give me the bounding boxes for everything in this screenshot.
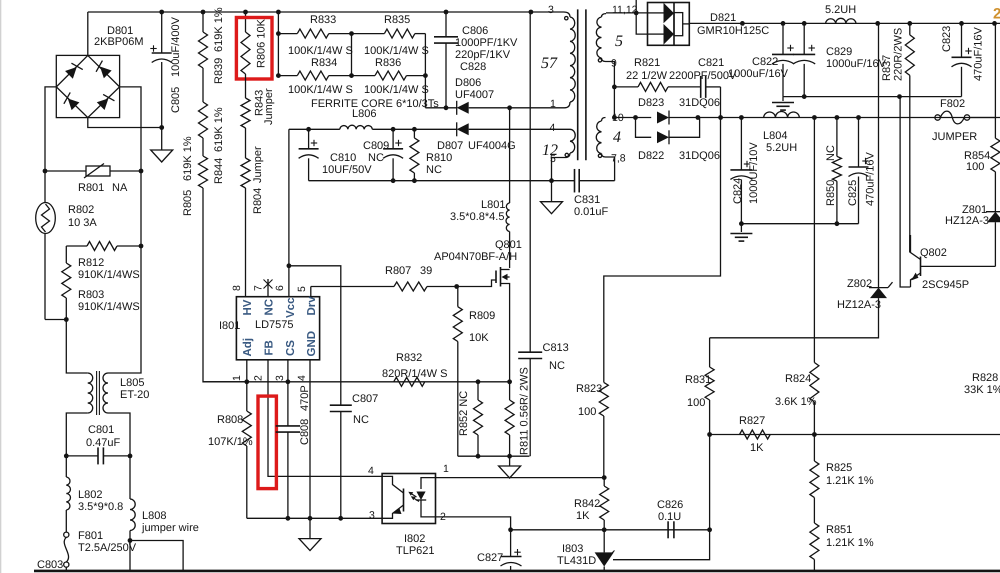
resistor R810 NC xyxy=(413,129,415,138)
svg-text:0.1U: 0.1U xyxy=(658,511,681,523)
svg-text:D822: D822 xyxy=(638,150,664,162)
svg-text:100: 100 xyxy=(966,161,984,173)
svg-text:C806: C806 xyxy=(462,25,488,37)
resistor R834 100K/1/4WS xyxy=(278,75,297,77)
svg-text:NC: NC xyxy=(353,414,369,426)
svg-text:820R/1/4W S: 820R/1/4W S xyxy=(382,368,447,380)
svg-text:C813: C813 xyxy=(543,342,569,354)
svg-text:NC: NC xyxy=(368,152,384,164)
resistor R821 22 1/2W xyxy=(614,86,638,88)
svg-text:C809: C809 xyxy=(363,140,389,152)
inductor L802 3.5*9*0.8 xyxy=(65,456,67,477)
svg-text:TL431D: TL431D xyxy=(557,555,596,567)
svg-text:1: 1 xyxy=(550,98,556,110)
bridge diode top-left xyxy=(64,61,82,79)
svg-text:T2.5A/250V: T2.5A/250V xyxy=(78,542,137,554)
wire bridge right down xyxy=(120,87,141,171)
svg-text:C826: C826 xyxy=(657,499,683,511)
svg-text:D807: D807 xyxy=(437,140,463,152)
svg-text:3: 3 xyxy=(548,4,554,16)
svg-text:TLP621: TLP621 xyxy=(396,545,435,557)
svg-text:R821: R821 xyxy=(634,57,660,69)
svg-text:2: 2 xyxy=(253,375,265,381)
resistor R801 NA (fusible) xyxy=(45,170,86,172)
svg-text:3: 3 xyxy=(274,375,286,381)
zener Z802 HZ12A-3 xyxy=(878,23,880,287)
inductor L806 ferrite core xyxy=(340,125,373,129)
svg-text:100uF/400V: 100uF/400V xyxy=(170,16,182,77)
inductor L808 jumper wire xyxy=(129,456,131,499)
wire Adj/CS line xyxy=(203,381,510,383)
resistor R835 100K/1/4WS xyxy=(352,33,385,35)
svg-text:1000uF/16V: 1000uF/16V xyxy=(826,58,887,70)
svg-text:I803: I803 xyxy=(562,543,583,555)
svg-text:100: 100 xyxy=(578,406,596,418)
svg-text:57: 57 xyxy=(541,55,558,72)
svg-text:0.01uF: 0.01uF xyxy=(574,206,609,218)
wire secondary gnd rail xyxy=(783,96,962,98)
capacitor C824 1000UF/10V xyxy=(740,118,742,170)
svg-text:R827: R827 xyxy=(739,415,765,427)
svg-text:Q801: Q801 xyxy=(495,239,522,251)
svg-text:33K 1%: 33K 1% xyxy=(964,384,1000,396)
svg-text:C801: C801 xyxy=(88,424,114,436)
scan edge line xyxy=(0,0,2,573)
svg-text:R803: R803 xyxy=(78,289,104,301)
ground secondary xyxy=(782,97,784,101)
bridge diode bottom-left xyxy=(61,92,79,110)
wire R809 bottom link xyxy=(457,382,459,456)
svg-text:R831: R831 xyxy=(685,374,711,386)
svg-text:R851: R851 xyxy=(826,524,852,536)
svg-text:JUMPER: JUMPER xyxy=(932,131,977,143)
svg-text:0.47uF: 0.47uF xyxy=(86,437,121,449)
resistor R831 100 xyxy=(709,338,711,367)
svg-text:R836: R836 xyxy=(375,57,401,69)
svg-text:C807: C807 xyxy=(352,393,378,405)
wire bottom ground rail xyxy=(34,570,1000,573)
resistor R844 619K 1% xyxy=(202,68,204,102)
svg-text:C827: C827 xyxy=(477,552,503,564)
wire Vcc top line xyxy=(289,128,340,130)
resistor R854 100 xyxy=(994,23,996,138)
IC pin 7 stub with X (NC) xyxy=(267,279,269,297)
svg-text:2KBP06M: 2KBP06M xyxy=(94,36,144,48)
capacitor C822 1000uF/16V xyxy=(782,23,784,54)
svg-text:R823: R823 xyxy=(576,383,602,395)
svg-text:R824: R824 xyxy=(785,373,811,385)
svg-text:100K/1/4W S: 100K/1/4W S xyxy=(288,45,353,57)
svg-text:NC: NC xyxy=(263,299,275,316)
svg-text:GMR10H125C: GMR10H125C xyxy=(697,25,769,37)
svg-text:4: 4 xyxy=(296,375,308,381)
svg-text:107K/1%: 107K/1% xyxy=(208,436,253,448)
wire R842/C826 row xyxy=(511,529,710,531)
svg-text:1000UF/10V: 1000UF/10V xyxy=(748,142,760,204)
highlight red box around R806 xyxy=(236,18,272,80)
svg-text:L805: L805 xyxy=(120,377,144,389)
wire R805 column top xyxy=(202,12,204,32)
svg-text:3.5*9*0.8: 3.5*9*0.8 xyxy=(78,501,123,513)
fuse F802 jumper xyxy=(935,115,940,120)
node top rail junctions xyxy=(159,10,164,15)
svg-text:R842: R842 xyxy=(574,498,600,510)
svg-text:LD7575: LD7575 xyxy=(255,319,294,331)
svg-text:1000uF/16V: 1000uF/16V xyxy=(728,68,789,80)
svg-text:L802: L802 xyxy=(78,489,102,501)
wire opto pin1 to R842 node xyxy=(436,477,605,479)
wire 11,12 stub to top edge and lower anode xyxy=(636,0,647,34)
transistor Q802 2SC945P xyxy=(920,257,922,277)
svg-text:5.2UH: 5.2UH xyxy=(766,142,797,154)
svg-text:220pF/1KV: 220pF/1KV xyxy=(455,49,511,61)
resistor R827 1K xyxy=(740,430,771,439)
svg-text:5: 5 xyxy=(615,33,623,50)
svg-text:3.6K 1%: 3.6K 1% xyxy=(775,396,817,408)
resistor R837 220R/2WS xyxy=(909,23,911,35)
resistor R836 100K/1/4WS xyxy=(352,75,376,77)
svg-text:ET-20: ET-20 xyxy=(120,389,149,401)
wire R823 top jog to 12V xyxy=(604,87,721,383)
svg-text:I801: I801 xyxy=(219,320,240,332)
opto light arrows xyxy=(410,493,417,498)
svg-text:Jumper: Jumper xyxy=(263,88,275,125)
svg-text:C803: C803 xyxy=(37,559,63,571)
wire TL431 ref to divider xyxy=(613,530,710,560)
svg-text:C808: C808 xyxy=(299,419,311,445)
svg-text:1K: 1K xyxy=(750,442,764,454)
svg-text:AP04N70BF-A/H: AP04N70BF-A/H xyxy=(434,251,517,263)
optocoupler I802 TLP621 box xyxy=(382,474,435,524)
wire gate from Drv xyxy=(457,280,496,287)
wire Adj pin1 stub xyxy=(246,360,248,382)
svg-text:UF4004G: UF4004G xyxy=(468,140,516,152)
svg-text:100K/1/4W S: 100K/1/4W S xyxy=(288,84,353,96)
svg-text:I802: I802 xyxy=(404,533,425,545)
wire bridge bottom xyxy=(88,118,162,128)
inductor 5.2UH top xyxy=(826,18,856,23)
capacitor C825 470uF/16V xyxy=(858,118,860,168)
svg-text:CS: CS xyxy=(285,340,297,356)
wire R827 row xyxy=(710,434,1000,436)
svg-text:3.5*0.8*4.5: 3.5*0.8*4.5 xyxy=(450,211,504,223)
svg-text:C824: C824 xyxy=(732,178,744,204)
capacitor C829 1000uF/16V xyxy=(803,23,805,54)
svg-text:UF4007: UF4007 xyxy=(455,89,494,101)
svg-text:1.21K 1%: 1.21K 1% xyxy=(826,537,874,549)
svg-text:Drv: Drv xyxy=(306,296,318,316)
wire IC ground row to opto pin3 xyxy=(247,517,382,519)
svg-text:NA: NA xyxy=(112,182,128,194)
svg-text:220R/2WS: 220R/2WS xyxy=(893,28,905,81)
svg-text:5: 5 xyxy=(296,286,308,292)
resistor R839 619K 1% xyxy=(199,32,208,68)
wire snubber left column xyxy=(277,12,279,76)
svg-text:C831: C831 xyxy=(574,194,600,206)
diode D823 31DQ06 xyxy=(614,117,651,119)
opto phototransistor xyxy=(403,489,405,512)
svg-text:5.2UH: 5.2UH xyxy=(825,4,856,16)
resistor R843 jumper xyxy=(245,74,247,98)
svg-text:L808: L808 xyxy=(142,510,166,522)
svg-text:470P: 470P xyxy=(299,385,311,411)
wire C824 bottom rail xyxy=(741,223,858,225)
svg-text:R808: R808 xyxy=(217,414,243,426)
resistor R851 1.21K 1% xyxy=(813,498,815,523)
svg-text:R802: R802 xyxy=(68,204,94,216)
svg-text:470uF/16V: 470uF/16V xyxy=(973,27,985,81)
svg-text:39: 39 xyxy=(420,265,432,277)
wire Vcc column to IC pin6 xyxy=(288,129,290,296)
svg-text:31DQ06: 31DQ06 xyxy=(679,150,720,162)
svg-text:C805: C805 xyxy=(170,87,182,113)
svg-text:Adj: Adj xyxy=(242,338,254,357)
svg-text:L806: L806 xyxy=(352,108,376,120)
wire x141 column down to L805 xyxy=(108,171,141,373)
diode D806 UF4007 xyxy=(425,107,456,109)
resistor R809 10K xyxy=(457,287,459,307)
svg-text:619K 1%: 619K 1% xyxy=(213,107,225,152)
ground under C805 xyxy=(151,150,173,162)
svg-text:8: 8 xyxy=(231,285,243,291)
wire Vcc branch to C807 xyxy=(287,263,292,268)
wire Q801 source down to R811 xyxy=(509,288,511,400)
wire GND pin4 down xyxy=(309,360,311,519)
svg-text:7,8: 7,8 xyxy=(611,153,626,165)
svg-text:4: 4 xyxy=(368,465,374,477)
svg-text:C823: C823 xyxy=(941,26,953,52)
svg-text:HV: HV xyxy=(242,299,254,315)
svg-text:Q802: Q802 xyxy=(920,247,947,259)
svg-text:D806: D806 xyxy=(455,77,481,89)
svg-text:2: 2 xyxy=(993,6,1000,23)
svg-text:2200PF/500V: 2200PF/500V xyxy=(669,70,737,82)
capacitor C810 10UF/50V xyxy=(308,129,310,149)
svg-text:10UF/50V: 10UF/50V xyxy=(322,164,372,176)
svg-text:1K: 1K xyxy=(576,510,590,522)
wire CS pin3 stub xyxy=(287,360,289,382)
svg-text:NC: NC xyxy=(825,145,837,161)
inductor L801 3.5*0.8*4.5 xyxy=(509,108,511,203)
resistor R842 1K xyxy=(603,478,605,486)
svg-text:R810: R810 xyxy=(426,152,452,164)
wire L806 right to D807 xyxy=(372,128,456,130)
wire primary gnd rail xyxy=(309,180,575,182)
svg-text:R801: R801 xyxy=(78,182,104,194)
svg-text:HZ12A-3: HZ12A-3 xyxy=(837,299,881,311)
svg-text:R835: R835 xyxy=(384,14,410,26)
wire left into L805 xyxy=(66,320,87,374)
svg-text:C821: C821 xyxy=(698,57,724,69)
svg-text:910K/1/4WS: 910K/1/4WS xyxy=(78,301,140,313)
node R803 bottom junction xyxy=(45,319,66,321)
capacitor C806 1000PF/1KV / C828 220pF/1KV xyxy=(445,12,447,37)
capacitor C823 470uF/16V xyxy=(961,23,963,57)
svg-text:3: 3 xyxy=(369,510,375,522)
wire bridge top to top rail xyxy=(87,12,89,55)
svg-text:22 1/2W: 22 1/2W xyxy=(626,70,668,82)
svg-text:R811 0.56R/ 2WS: R811 0.56R/ 2WS xyxy=(519,367,531,455)
svg-text:619K 1%: 619K 1% xyxy=(182,136,194,181)
svg-text:10K: 10K xyxy=(469,332,489,344)
diode D822 31DQ06 parallel xyxy=(636,118,652,138)
svg-text:GND: GND xyxy=(306,331,318,357)
op-amp/controller IC I801 LD7575 box xyxy=(236,297,319,360)
node Z802 top rail xyxy=(877,22,879,24)
wire pin9 to pin10 junction xyxy=(606,62,615,118)
ground primary aux xyxy=(551,181,553,202)
capacitor C813 NC xyxy=(529,12,531,352)
svg-text:HZ12A-3: HZ12A-3 xyxy=(945,215,989,227)
common-mode choke L805 ET-20 xyxy=(88,373,93,413)
svg-text:C822: C822 xyxy=(752,56,778,68)
svg-text:F801: F801 xyxy=(78,530,103,542)
svg-text:7: 7 xyxy=(253,285,265,291)
svg-text:R833: R833 xyxy=(310,14,336,26)
transformer secondary winding 4 pins 10-7,8 xyxy=(602,118,606,122)
svg-text:100: 100 xyxy=(687,397,705,409)
wire snubber middle link xyxy=(351,34,353,76)
capacitor C807 NC xyxy=(330,404,352,406)
inductor L804 5.2UH xyxy=(764,112,800,118)
svg-text:10 3A: 10 3A xyxy=(68,217,97,229)
wire F802 to R854 column xyxy=(970,117,996,119)
wire Q802 emitter loop to gnd rail xyxy=(900,97,910,287)
svg-text:C828: C828 xyxy=(460,61,486,73)
ground IC xyxy=(309,518,311,538)
svg-text:11,12: 11,12 xyxy=(612,4,638,16)
resistor R825 1.21K 1% xyxy=(813,435,815,462)
resistor R852 NC xyxy=(477,382,479,400)
svg-text:100K/1/4W S: 100K/1/4W S xyxy=(364,84,429,96)
svg-text:R807: R807 xyxy=(385,265,411,277)
wire top rail to transformer pin 3 xyxy=(531,11,564,13)
wire sec winding top to D821 xyxy=(606,12,648,14)
capacitor C801 0.47uF xyxy=(66,455,98,457)
svg-text:D823: D823 xyxy=(638,97,664,109)
resistor R804 jumper xyxy=(245,128,247,158)
wire FB pin2 down xyxy=(268,360,382,477)
svg-text:4: 4 xyxy=(613,129,621,146)
wire bridge left to AC column xyxy=(45,87,56,171)
wire D821 output to top rail xyxy=(689,22,1000,24)
wire opto pin2 to C827 node xyxy=(436,517,511,530)
svg-text:R852 NC: R852 NC xyxy=(458,391,470,436)
wire L805 bottoms xyxy=(66,413,87,456)
svg-text:D821: D821 xyxy=(710,12,736,24)
svg-text:Z802: Z802 xyxy=(847,278,872,290)
wire R837 to collector segment xyxy=(909,235,911,253)
svg-text:4: 4 xyxy=(550,122,556,134)
resistor R806 10K xyxy=(245,12,247,32)
svg-text:C829: C829 xyxy=(826,46,852,58)
svg-text:F802: F802 xyxy=(940,98,965,110)
wire top rail B+ xyxy=(88,11,531,13)
transformer secondary winding 5 pins 11,12-9 xyxy=(602,14,607,17)
resistor R812 910K/1/4WS xyxy=(66,245,87,247)
capacitor C831 0.01uF in gnd rail xyxy=(574,169,576,193)
resistor R833 100K/1/4WS xyxy=(278,33,297,35)
transformer aux winding 12 pins 4-5 xyxy=(570,129,575,153)
wire R804 to IC pin 8 HV xyxy=(245,188,247,297)
svg-text:R804: R804 xyxy=(252,188,264,214)
ground C824 xyxy=(740,224,742,232)
svg-text:12: 12 xyxy=(542,142,558,159)
fuse F801 T2.5A/250V xyxy=(65,510,67,532)
diode D807 UF4004G xyxy=(457,123,469,135)
svg-text:NC: NC xyxy=(549,360,565,372)
svg-text:C825: C825 xyxy=(847,180,859,206)
capacitor C805 100uF/400V xyxy=(161,12,163,53)
svg-text:R839: R839 xyxy=(213,58,225,84)
svg-text:1: 1 xyxy=(231,375,243,381)
svg-text:619K 1%: 619K 1% xyxy=(213,7,225,52)
zener Z801 HZ12A-3 xyxy=(994,172,996,212)
resistor R802 10 3A (thermistor) xyxy=(44,171,46,203)
wire R852/R811 bottom rail xyxy=(458,455,530,457)
capacitor C821 2200PF/500V xyxy=(700,76,702,98)
svg-text:R832: R832 xyxy=(396,352,422,364)
wire R805 bottom to Adj line xyxy=(203,188,247,382)
svg-text:R837: R837 xyxy=(881,55,893,81)
resistor R808 107K/1% xyxy=(246,382,248,411)
capacitor C809 NC xyxy=(392,129,394,149)
transformer primary winding 57 pins 3-1 xyxy=(564,12,571,17)
resistor R805 619K 1% xyxy=(202,138,204,156)
resistor R803 910K/1/4WS xyxy=(65,246,67,263)
svg-text:1.21K 1%: 1.21K 1% xyxy=(826,475,874,487)
bridge diode bottom-right xyxy=(96,92,114,110)
wire aux pin5 down to gnd rail xyxy=(552,158,566,181)
svg-text:R834: R834 xyxy=(311,57,337,69)
shunt regulator I803 TL431D xyxy=(603,530,605,553)
highlight red box around FB wire xyxy=(258,396,276,489)
wire Drv pin 5 up xyxy=(310,287,312,297)
svg-text:L801: L801 xyxy=(481,199,505,211)
wire R831 column down to C826 row xyxy=(709,435,711,530)
svg-text:Vcc: Vcc xyxy=(285,297,297,318)
dual diode D821 GMR10H125C xyxy=(648,3,690,46)
wire Z801 to Q802 base xyxy=(921,265,996,267)
resistor R823 100 xyxy=(599,382,608,416)
svg-text:31DQ06: 31DQ06 xyxy=(679,97,720,109)
wire snubber right link to D806 line xyxy=(424,34,426,108)
wire L808 junction to bottom rail xyxy=(130,541,183,572)
svg-text:FB: FB xyxy=(263,340,275,355)
transformer core xyxy=(577,9,579,160)
bridge diode top-right xyxy=(94,61,112,79)
MOSFET Q801 AP04N70BF-A/H xyxy=(509,232,511,269)
svg-text:1000PF/1KV: 1000PF/1KV xyxy=(455,37,518,49)
svg-text:Jumper: Jumper xyxy=(252,146,264,183)
svg-text:2SC945P: 2SC945P xyxy=(922,279,969,291)
wire pin 7,8 down to C831 xyxy=(606,157,615,181)
capacitor C808 470P xyxy=(287,382,289,426)
resistor R811 0.56R/2WS xyxy=(505,400,514,435)
svg-text:R806 10K: R806 10K xyxy=(256,18,268,68)
ground sense rail xyxy=(509,456,511,466)
wire R837 down to Q802 collector xyxy=(909,75,911,252)
svg-text:6: 6 xyxy=(274,285,286,291)
svg-text:1: 1 xyxy=(443,463,449,475)
svg-text:L804: L804 xyxy=(763,130,787,142)
resistor R850 NC xyxy=(836,118,838,157)
svg-text:R809: R809 xyxy=(469,310,495,322)
svg-text:jumper wire: jumper wire xyxy=(141,522,199,534)
opto LED xyxy=(421,478,436,489)
svg-text:NC: NC xyxy=(426,164,442,176)
svg-text:R805: R805 xyxy=(182,190,194,216)
